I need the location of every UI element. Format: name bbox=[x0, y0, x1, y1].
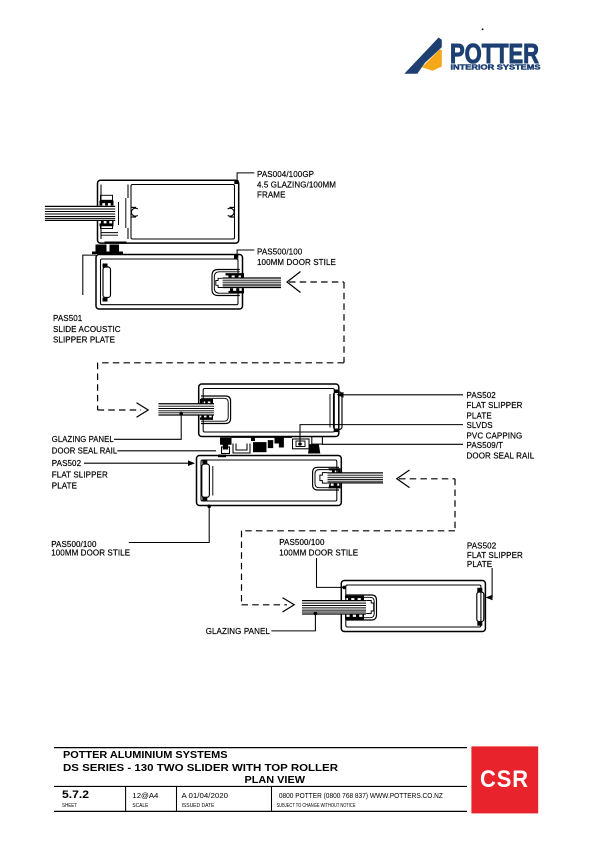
label GLAZING PANEL D3 leader bbox=[271, 612, 317, 631]
gasket block bbox=[268, 440, 273, 448]
frame PAS004 outer profile bbox=[98, 180, 239, 243]
label PAS502 D3 leader bbox=[486, 568, 493, 600]
frame inner hollow bbox=[131, 185, 235, 240]
frame glazing gasket bottom bbox=[99, 221, 113, 226]
label PAS500/100 left-bottom leader bbox=[129, 505, 211, 543]
svg-text:PVC CAPPING: PVC CAPPING bbox=[467, 432, 523, 441]
pocket gaskets bbox=[225, 273, 244, 293]
pocket step clip bbox=[320, 473, 328, 484]
svg-text:PLATE: PLATE bbox=[467, 560, 492, 569]
svg-text:SLVDS: SLVDS bbox=[467, 421, 493, 430]
svg-text:GLAZING PANEL: GLAZING PANEL bbox=[52, 435, 114, 444]
svg-text:DOOR SEAL RAIL: DOOR SEAL RAIL bbox=[467, 452, 535, 461]
svg-text:SHEET: SHEET bbox=[62, 803, 77, 809]
gasket T left bbox=[220, 437, 232, 449]
frame gasket seat outline bottom bbox=[101, 224, 113, 229]
glazing pocket right bbox=[212, 270, 240, 296]
top stile PAS500 D2 bbox=[199, 384, 342, 437]
svg-text:INTERIOR SYSTEMS: INTERIOR SYSTEMS bbox=[451, 63, 541, 72]
svg-text:ISSUED DATE: ISSUED DATE bbox=[182, 803, 216, 809]
svg-text:FLAT SLIPPER: FLAT SLIPPER bbox=[467, 551, 523, 560]
bottom rule bbox=[54, 810, 467, 812]
glazing pocket left bbox=[201, 396, 231, 424]
glazing pocket right bbox=[313, 467, 339, 490]
dashed route D1 to D2 bbox=[98, 282, 344, 410]
glazing panel into D3 stile bbox=[302, 600, 366, 614]
mid rule bbox=[54, 785, 467, 787]
direction arrow D1 bbox=[287, 272, 344, 293]
interlock gaskets frame/stile D1 bbox=[92, 242, 127, 255]
stile PAS500 D1 bbox=[96, 255, 244, 310]
top rule bbox=[54, 747, 467, 749]
svg-text:POTTER ALUMINIUM SYSTEMS: POTTER ALUMINIUM SYSTEMS bbox=[63, 750, 228, 761]
frame left cell wall bbox=[100, 185, 102, 202]
svg-text:PAS500/100: PAS500/100 bbox=[257, 248, 303, 257]
dashed route D2 to D3 bbox=[242, 479, 456, 605]
pocket step clip bbox=[366, 601, 374, 614]
glazing pocket left bbox=[346, 595, 377, 620]
svg-text:DOOR SEAL RAIL: DOOR SEAL RAIL bbox=[52, 447, 118, 456]
seal rail top tie line bbox=[231, 436, 292, 438]
svg-text:PLAN VIEW: PLAN VIEW bbox=[245, 775, 306, 786]
white seat left bbox=[222, 447, 230, 454]
label PAS502 (right) leader bbox=[337, 392, 464, 398]
svg-text:PAS502: PAS502 bbox=[52, 459, 82, 468]
svg-text:SUBJECT TO CHANGE WITHOUT NOTI: SUBJECT TO CHANGE WITHOUT NOTICE bbox=[277, 803, 357, 809]
POTTER logo mark bbox=[404, 38, 540, 74]
svg-text:FLAT SLIPPER: FLAT SLIPPER bbox=[52, 470, 108, 479]
svg-text:100MM DOOR STILE: 100MM DOOR STILE bbox=[279, 548, 358, 557]
svg-text:SLIDE ACOUSTIC: SLIDE ACOUSTIC bbox=[53, 325, 121, 334]
frame pocket back wall bbox=[118, 202, 120, 225]
pocket gaskets bbox=[200, 399, 213, 420]
label PAS004/100GP leader bbox=[234, 173, 254, 184]
svg-text:PAS502: PAS502 bbox=[467, 542, 497, 551]
label GLAZING PANEL (left) leader bbox=[114, 412, 183, 440]
label SLVDS leader bbox=[298, 425, 463, 446]
svg-text:12@A4: 12@A4 bbox=[132, 793, 158, 800]
glazing panel into D2 bottom stile bbox=[328, 473, 384, 484]
svg-text:100MM DOOR STILE: 100MM DOOR STILE bbox=[51, 549, 130, 558]
SLVDS body bbox=[293, 439, 310, 449]
slide acoustic slipper plate PAS501 bbox=[103, 267, 111, 298]
label PAS509/T leader bbox=[322, 443, 463, 445]
label PAS500/100 leader bbox=[234, 250, 254, 259]
svg-text:FLAT SLIPPER: FLAT SLIPPER bbox=[467, 401, 523, 410]
screw boss left bbox=[131, 207, 138, 217]
screw boss right bbox=[228, 207, 235, 217]
svg-text:FRAME: FRAME bbox=[257, 190, 286, 199]
door seal rail assembly bbox=[218, 437, 322, 458]
glazing panel into D2 top stile bbox=[158, 404, 214, 416]
svg-text:5.7.2: 5.7.2 bbox=[62, 789, 89, 801]
flat slipper plate left bbox=[212, 466, 214, 496]
direction arrow D2 right bbox=[397, 470, 455, 488]
svg-text:PAS502: PAS502 bbox=[467, 391, 497, 400]
svg-text:4.5 GLAZING/100MM: 4.5 GLAZING/100MM bbox=[257, 181, 336, 190]
svg-text:100MM DOOR STILE: 100MM DOOR STILE bbox=[257, 258, 336, 267]
svg-text:DS SERIES - 130 TWO SLIDER WIT: DS SERIES - 130 TWO SLIDER WITH TOP ROLL… bbox=[63, 763, 339, 774]
svg-text:PAS004/100GP: PAS004/100GP bbox=[257, 170, 314, 179]
CSR logo bbox=[471, 746, 538, 813]
arrow into D3 glass bbox=[283, 598, 295, 612]
svg-text:PAS501: PAS501 bbox=[53, 314, 83, 323]
svg-text:SCALE: SCALE bbox=[132, 803, 149, 809]
flat slipper plate right bbox=[329, 394, 331, 428]
glazing panel into stile D1 bbox=[223, 278, 281, 288]
gasket block mid bbox=[253, 442, 267, 452]
label DOOR SEAL RAIL (left) leader bbox=[117, 450, 216, 452]
frame glazing gasket top bbox=[99, 201, 113, 227]
flat slipper plate right bbox=[477, 592, 484, 622]
svg-text:GLAZING PANEL: GLAZING PANEL bbox=[206, 627, 271, 636]
gasket corner bbox=[275, 437, 284, 447]
dividers bbox=[125, 786, 127, 811]
svg-text:SLIPPER PLATE: SLIPPER PLATE bbox=[53, 336, 115, 345]
seal rail channel bbox=[233, 444, 250, 454]
gasket wedge right bbox=[308, 444, 320, 453]
small ticks bbox=[218, 455, 226, 458]
frame pocket lip bottom bbox=[101, 232, 118, 234]
capping top right bbox=[312, 437, 323, 445]
svg-text:CSR: CSR bbox=[480, 766, 529, 793]
pocket gaskets bbox=[345, 596, 364, 620]
frame gasket seat outline top bbox=[101, 195, 113, 200]
svg-text:PAS500/100: PAS500/100 bbox=[279, 538, 325, 547]
svg-text:PAS509/T: PAS509/T bbox=[467, 441, 504, 450]
svg-text:A 01/04/2020: A 01/04/2020 bbox=[182, 793, 229, 800]
glazing panel into frame D1 bbox=[45, 206, 115, 221]
label PAS502 (left) leader bbox=[84, 460, 195, 466]
label PAS501 leader bbox=[83, 255, 96, 295]
svg-text:PLATE: PLATE bbox=[52, 482, 77, 491]
label PAS500/100 D3 leader bbox=[317, 558, 347, 589]
svg-text:PLATE: PLATE bbox=[467, 411, 492, 420]
arrow into D2 glass bbox=[137, 403, 149, 417]
registered mark dot bbox=[482, 28, 484, 30]
svg-text:0800 POTTER (0800 768 837) WWW: 0800 POTTER (0800 768 837) WWW.POTTERS.C… bbox=[279, 793, 444, 800]
stile PAS500 D3 bbox=[341, 581, 485, 632]
bottom stile PAS500 D2 bbox=[197, 456, 342, 506]
